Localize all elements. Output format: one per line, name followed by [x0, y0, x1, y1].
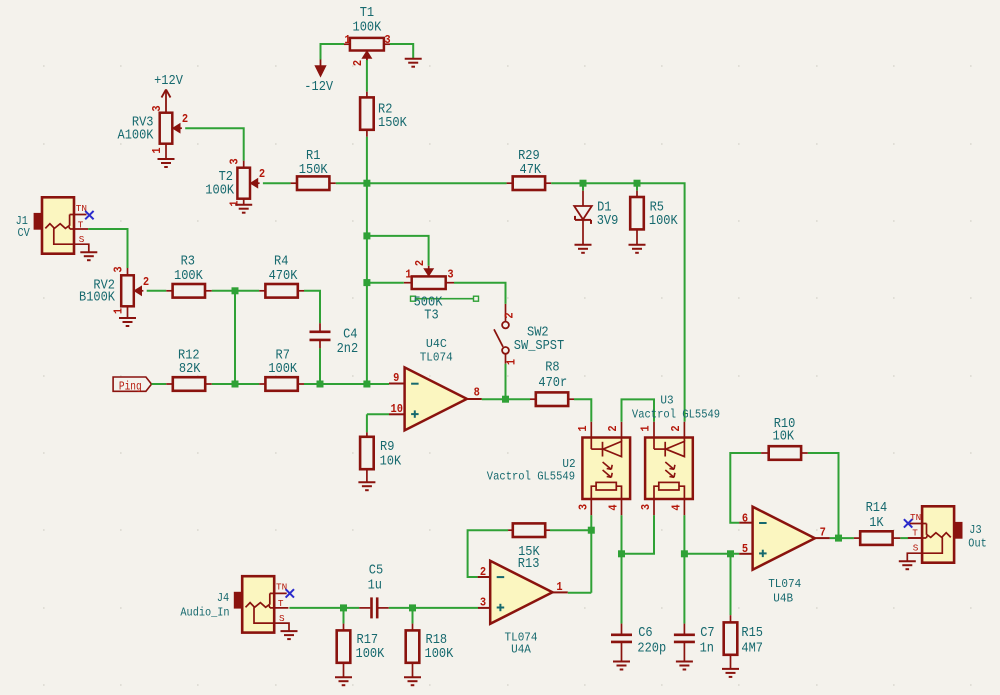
junction: [232, 381, 239, 388]
junction: [681, 550, 688, 557]
wire T3 dangling: [411, 296, 416, 301]
potentiometer RV2: [121, 275, 134, 306]
ground: [358, 481, 375, 483]
svg-text:1: 1: [639, 425, 653, 431]
wire: [234, 291, 236, 384]
wire: [263, 182, 291, 184]
svg-text:1u: 1u: [368, 579, 382, 594]
svg-text:1: 1: [405, 268, 411, 282]
svg-text:10K: 10K: [380, 455, 402, 470]
svg-text:C7: C7: [700, 626, 714, 641]
junction: [363, 180, 370, 187]
connector J4 Audio_In: [242, 576, 274, 632]
svg-text:A100K: A100K: [118, 128, 155, 143]
resistor R10: [761, 452, 769, 454]
wire: [808, 453, 839, 538]
svg-text:1: 1: [556, 580, 562, 594]
potentiometer T2: [237, 168, 250, 199]
svg-text:2: 2: [606, 425, 620, 431]
wire: [684, 553, 739, 555]
svg-text:T3: T3: [424, 309, 438, 324]
wire: [367, 236, 429, 266]
wire: [454, 283, 506, 304]
wire: [468, 530, 509, 577]
svg-text:R3: R3: [181, 255, 195, 270]
svg-text:3: 3: [639, 504, 653, 510]
svg-text:2: 2: [259, 167, 265, 181]
wire: [390, 44, 413, 59]
wire: [412, 608, 414, 624]
wire: [582, 183, 584, 191]
ground: [335, 676, 352, 678]
wire: [730, 453, 761, 523]
potentiometer T3: [412, 276, 446, 289]
wire: [367, 282, 404, 284]
ground: [158, 158, 175, 160]
svg-text:100K: 100K: [205, 184, 235, 199]
potentiometer T1: [350, 38, 384, 51]
svg-text:TL074: TL074: [768, 577, 801, 591]
resistor R7: [259, 383, 265, 385]
ground: [613, 661, 630, 663]
resistor R1: [291, 182, 297, 184]
svg-text:T: T: [912, 527, 918, 538]
svg-text:2: 2: [413, 260, 427, 266]
svg-text:U3: U3: [660, 394, 673, 408]
svg-text:C4: C4: [343, 328, 357, 343]
junction: [634, 180, 641, 187]
svg-text:220p: 220p: [637, 642, 666, 657]
svg-text:Audio_In: Audio_In: [180, 607, 229, 620]
svg-text:10: 10: [391, 402, 403, 416]
wire: [900, 537, 908, 539]
svg-text:SW_SPST: SW_SPST: [514, 339, 564, 354]
svg-text:R12: R12: [178, 348, 200, 363]
ground: [575, 244, 592, 246]
wire: [622, 515, 655, 554]
svg-text:R9: R9: [380, 440, 394, 455]
junction: [588, 527, 595, 534]
svg-text:R17: R17: [357, 633, 379, 648]
svg-text:2: 2: [503, 312, 517, 318]
junction: [363, 232, 370, 239]
no-connect X: [85, 211, 93, 219]
wire: [367, 413, 389, 415]
junction: [618, 550, 625, 557]
capacitor C7: [683, 624, 685, 635]
ground: [235, 204, 252, 206]
optocoupler U3 Vactrol GL5549: [645, 438, 693, 500]
svg-text:R18: R18: [426, 633, 448, 648]
svg-text:Vactrol GL5549: Vactrol GL5549: [487, 470, 575, 484]
svg-text:Ping: Ping: [119, 381, 142, 394]
svg-text:470K: 470K: [269, 269, 299, 284]
svg-text:CV: CV: [18, 227, 30, 240]
svg-text:100K: 100K: [268, 362, 298, 377]
svg-text:J3: J3: [969, 524, 981, 537]
svg-text:Vactrol GL5549: Vactrol GL5549: [632, 408, 720, 422]
svg-text:3: 3: [384, 33, 390, 47]
svg-text:5: 5: [742, 542, 748, 556]
capacitor C6: [621, 624, 623, 635]
svg-text:4: 4: [669, 504, 683, 510]
op-amp U4C TL074: [405, 367, 467, 430]
wire: [590, 515, 592, 593]
wire: [88, 229, 127, 268]
svg-text:2: 2: [669, 425, 683, 431]
svg-text:TL074: TL074: [420, 351, 453, 365]
svg-text:3: 3: [447, 268, 453, 282]
svg-text:B100K: B100K: [79, 291, 116, 306]
svg-text:TN: TN: [276, 582, 287, 593]
resistor R8: [530, 398, 536, 400]
ground: [676, 661, 693, 663]
wire: [336, 182, 507, 184]
svg-text:T: T: [278, 598, 284, 609]
wire: [568, 592, 592, 594]
svg-text:+12V: +12V: [154, 74, 184, 89]
svg-text:T: T: [78, 219, 84, 230]
no-connect X: [286, 589, 294, 597]
wire: [482, 398, 530, 400]
svg-text:100K: 100K: [356, 647, 386, 662]
svg-text:1: 1: [112, 308, 126, 314]
no-connect X: [904, 519, 912, 527]
svg-text:4: 4: [607, 504, 621, 510]
svg-text:S: S: [79, 234, 85, 245]
svg-text:4M7: 4M7: [741, 642, 763, 657]
junction: [727, 550, 734, 557]
svg-text:2: 2: [351, 60, 365, 66]
connector J3 Out: [922, 506, 954, 562]
resistor R15: [730, 615, 732, 622]
wire: [185, 128, 244, 161]
svg-text:8: 8: [474, 386, 480, 400]
svg-text:2: 2: [182, 112, 188, 126]
wire: [343, 608, 345, 624]
svg-text:82K: 82K: [179, 362, 201, 377]
wire: [550, 529, 591, 531]
svg-text:47K: 47K: [520, 163, 542, 178]
wire: [683, 515, 685, 623]
svg-text:100K: 100K: [353, 21, 383, 36]
junction: [363, 381, 370, 388]
junction: [835, 535, 842, 542]
capacitor C5: [359, 607, 370, 609]
svg-text:1K: 1K: [869, 516, 884, 531]
resistor R2: [366, 92, 368, 99]
svg-text:6: 6: [742, 512, 748, 526]
wire: [389, 607, 478, 609]
svg-text:R15: R15: [741, 626, 763, 641]
resistor R17: [343, 624, 345, 631]
svg-text:1: 1: [150, 147, 164, 153]
junction: [317, 381, 324, 388]
switch SW2: [505, 304, 507, 322]
junction: [409, 604, 416, 611]
capacitor C4: [319, 323, 321, 331]
power +12V: [162, 90, 167, 98]
svg-text:9: 9: [393, 371, 399, 385]
svg-text:U4A: U4A: [511, 642, 531, 656]
power -12V: [320, 60, 322, 67]
wire: [551, 183, 684, 422]
svg-text:S: S: [279, 613, 285, 624]
svg-text:U4C: U4C: [426, 337, 447, 351]
resistor R3: [166, 290, 173, 292]
svg-text:J1: J1: [16, 215, 28, 228]
wire: [621, 515, 623, 623]
ground: [119, 317, 136, 319]
wire: [212, 383, 259, 385]
ground: [404, 676, 421, 678]
svg-text:2: 2: [480, 565, 486, 579]
diode D1 zener 3V9: [582, 191, 584, 206]
svg-text:C5: C5: [369, 564, 383, 579]
svg-text:150K: 150K: [299, 163, 329, 178]
ground: [722, 668, 739, 670]
junction: [363, 279, 370, 286]
wire: [636, 183, 638, 191]
resistor R12: [166, 383, 173, 385]
svg-text:1n: 1n: [700, 642, 714, 657]
junction: [580, 180, 587, 187]
resistor R5: [636, 191, 638, 197]
resistor R13: [508, 529, 513, 531]
net label Ping: [113, 377, 151, 391]
svg-text:7: 7: [820, 526, 826, 540]
svg-text:3V9: 3V9: [597, 214, 619, 229]
junction: [232, 287, 239, 294]
svg-text:TN: TN: [910, 512, 921, 523]
svg-text:R29: R29: [518, 149, 540, 164]
resistor R4: [259, 290, 265, 292]
svg-text:S: S: [913, 543, 919, 554]
svg-text:1: 1: [505, 359, 519, 365]
wire: [730, 554, 732, 615]
svg-text:3: 3: [150, 105, 164, 111]
optocoupler U2 Vactrol GL5549: [582, 438, 630, 500]
svg-text:R8: R8: [545, 361, 559, 376]
ground: [405, 58, 422, 60]
wire: [147, 290, 167, 292]
svg-text:-12V: -12V: [304, 80, 334, 95]
potentiometer RV3: [160, 113, 173, 144]
wire: [830, 537, 854, 539]
resistor R18: [412, 624, 414, 631]
svg-text:2n2: 2n2: [337, 342, 359, 357]
op-amp U4A TL074: [490, 561, 552, 624]
svg-text:150K: 150K: [378, 116, 408, 131]
connector J1: [42, 197, 74, 253]
svg-text:100K: 100K: [425, 647, 455, 662]
svg-text:3: 3: [112, 266, 126, 272]
resistor R14: [854, 537, 861, 539]
wire: [152, 383, 167, 385]
svg-text:T1: T1: [360, 6, 374, 21]
svg-text:3: 3: [228, 158, 242, 164]
svg-text:T2: T2: [219, 170, 233, 185]
svg-text:1: 1: [344, 33, 350, 47]
op-amp U4B TL074: [753, 507, 815, 570]
wire: [622, 399, 655, 421]
svg-text:2: 2: [143, 275, 149, 289]
wire: [289, 607, 359, 609]
wire: [574, 399, 591, 422]
svg-text:100K: 100K: [174, 269, 204, 284]
wire: [212, 290, 259, 292]
junction: [502, 396, 509, 403]
svg-text:Out: Out: [968, 537, 986, 550]
svg-text:U4B: U4B: [773, 592, 793, 606]
wire: [321, 44, 345, 60]
ground: [629, 244, 646, 246]
junction: [340, 604, 347, 611]
svg-text:1: 1: [576, 425, 590, 431]
wire: [366, 137, 368, 384]
svg-text:100K: 100K: [649, 214, 679, 229]
wire: [304, 383, 389, 385]
svg-text:J4: J4: [217, 592, 229, 605]
svg-text:3: 3: [576, 504, 590, 510]
wire: [319, 348, 321, 384]
wire: [304, 291, 320, 323]
svg-text:10K: 10K: [773, 430, 795, 445]
resistor R9: [366, 432, 368, 437]
wire: [505, 364, 507, 400]
svg-text:R1: R1: [306, 149, 320, 164]
resistor R29: [507, 182, 513, 184]
svg-text:R13: R13: [518, 557, 540, 572]
svg-text:R4: R4: [274, 255, 288, 270]
wire: [366, 60, 368, 92]
svg-text:R14: R14: [866, 501, 888, 516]
svg-text:3: 3: [480, 596, 486, 610]
svg-text:R7: R7: [276, 348, 290, 363]
svg-text:C6: C6: [638, 626, 652, 641]
svg-text:470r: 470r: [538, 376, 567, 391]
